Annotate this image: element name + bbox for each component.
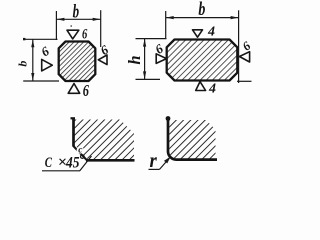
right top dimension b: dimension line [166, 17, 239, 19]
svg-text:r: r [150, 148, 158, 172]
radius detail hatching [169, 120, 215, 159]
svg-text:C: C [45, 155, 53, 171]
right fig surface mark top: triangle [193, 30, 203, 37]
radius detail top ink blob [166, 116, 171, 121]
chamfer detail top end hook [71, 117, 76, 119]
bottom right extension line (horizontal) [237, 80, 252, 82]
left dimension b: small end spot [23, 38, 25, 40]
svg-text:b: b [15, 61, 29, 67]
surface mark right: triangle [98, 55, 107, 65]
svg-text:6: 6 [83, 81, 90, 100]
chamfer detail vertical profile line [72, 118, 75, 147]
chamfer label degree circle [81, 155, 85, 159]
radius leader arrowhead [164, 157, 171, 164]
left dimension b: dimension line [32, 39, 34, 81]
right fig surface mark bottom: triangle [196, 82, 206, 91]
right top dimension b: right arrow [231, 16, 239, 19]
left dimension b: extension lines [23, 39, 59, 81]
right top dimension b: left arrow [166, 16, 174, 19]
top dimension b: dimension line [56, 18, 100, 20]
svg-text:h: h [125, 55, 144, 64]
chamfer small c halo [77, 146, 84, 153]
top dimension b: left arrow [57, 18, 65, 21]
chamfer label underline [42, 170, 80, 172]
left dimension h: top arrow [143, 39, 146, 47]
svg-text:b: b [198, 0, 205, 20]
chamfer detail chamfer line [73, 146, 87, 161]
chamfer leader line [80, 156, 92, 171]
left dimension h: extension lines [136, 39, 167, 80]
radius detail profile line (vertical, arc, horizontal) [168, 117, 217, 160]
right fig surface mark left: triangle [156, 54, 166, 64]
top dimension b: extension lines [56, 10, 100, 47]
radius leader line [160, 158, 170, 170]
right fig surface mark right: triangle [239, 52, 249, 62]
surface mark bottom: triangle [68, 84, 80, 94]
svg-text:4: 4 [207, 25, 215, 40]
square section body (hatched, chamfered corners) [59, 42, 96, 82]
rectangle section body (hatched, chamfered corners) [167, 40, 238, 81]
svg-text:4: 4 [208, 82, 216, 97]
surface mark left: triangle [42, 59, 53, 71]
chamfer detail horizontal profile line [86, 159, 135, 162]
right top dimension b: extension lines [166, 10, 239, 83]
left dimension h: dimension line [144, 39, 146, 80]
stray dot [70, 25, 72, 27]
radius label underline [149, 168, 160, 170]
surface mark top: triangle [67, 30, 79, 39]
chamfer detail hatching [75, 120, 135, 160]
left dimension h: bottom arrow [143, 71, 146, 79]
svg-text:b: b [73, 1, 80, 22]
svg-text:6: 6 [82, 27, 88, 43]
top dimension b: right arrow [93, 18, 101, 21]
left dimension b: top arrow [31, 40, 34, 48]
svg-text:45: 45 [65, 155, 80, 172]
left dimension b: bottom arrow [31, 73, 34, 81]
